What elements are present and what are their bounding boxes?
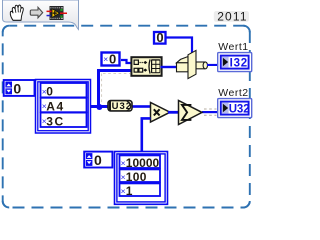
dashed structure border (2011 frame) [3,26,250,208]
constant 0 (top) [154,32,166,44]
marching ants around selected wire [102,74,130,104]
svg-text:0: 0 [156,30,163,45]
decimal array constant [115,152,168,205]
wire: hex array output to junction [91,105,108,108]
svg-text:U32: U32 [112,101,132,112]
wire: join to Wert1 [207,64,218,66]
hand tool icon [10,5,23,20]
svg-text:10000: 10000 [126,156,160,170]
svg-text:×: × [103,54,108,64]
wire: const 0 to join upper input [166,38,192,54]
wire: multiply to sigma [168,111,179,114]
svg-text:I32: I32 [230,57,248,69]
svg-text:0: 0 [94,152,102,168]
conversion bullet U32 [108,101,132,112]
index box of decimal array [84,152,112,169]
index box of hex array [4,80,35,96]
wire: junction up [97,69,100,106]
svg-text:0: 0 [46,84,53,98]
svg-text:U32: U32 [229,103,250,115]
multiply function [151,103,171,123]
junction dot [96,104,102,110]
add array elements (sigma) [179,101,203,125]
wire: sigma to Wert2 [202,111,218,113]
svg-text:Wert1: Wert1 [218,41,248,53]
2011 label [214,11,249,22]
wire: const x0 to build array upper input [121,60,131,63]
LabVIEW VI icon [47,6,68,20]
svg-text:0: 0 [109,52,116,67]
wire: multiply lower input [142,118,151,151]
svg-text:1: 1 [126,184,133,198]
wire: build array to join [161,66,178,68]
svg-text:A4: A4 [46,100,65,114]
toolbar panel [3,0,79,30]
join numbers function [177,50,208,78]
svg-text:3C: 3C [46,114,65,128]
svg-text:2011: 2011 [217,10,248,24]
constant x0 [102,53,120,66]
hex byte array constant [36,80,91,134]
build array U1 [131,57,161,76]
ants around Wert2 wire [204,109,217,115]
svg-text:100: 100 [126,170,147,184]
svg-text:Wert2: Wert2 [218,87,248,99]
wire: junction across to build array lower input [97,69,131,72]
wire: U32 label to multiply upper input [130,105,151,108]
svg-text:0: 0 [13,80,21,96]
arrow tool icon [30,7,42,17]
